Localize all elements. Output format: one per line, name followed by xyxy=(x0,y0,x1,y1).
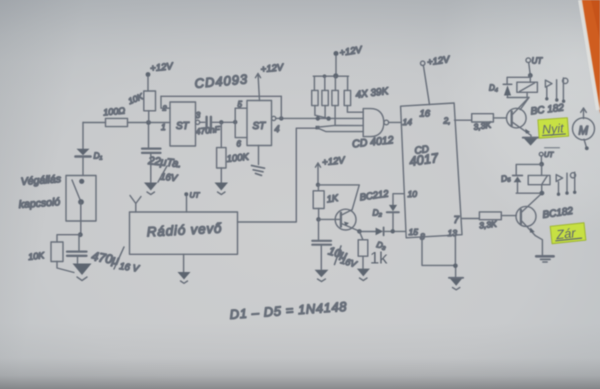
node base xyxy=(316,217,321,222)
IC CD4017 box xyxy=(401,103,462,238)
op IC ST1 (CD4093 gate A) xyxy=(170,102,196,146)
svg-text:BC182: BC182 xyxy=(542,206,574,221)
node relay1 top xyxy=(528,73,533,78)
wire to BC212 collector xyxy=(318,185,359,210)
wire +12V to 10K xyxy=(147,76,149,91)
svg-text:3: 3 xyxy=(196,110,201,120)
svg-text:10K: 10K xyxy=(28,250,46,262)
svg-text:D₄: D₄ xyxy=(489,84,498,93)
label UT (top right) xyxy=(526,58,531,63)
capacitor 22uTa xyxy=(142,125,161,182)
wire +12V arrow down xyxy=(315,163,320,185)
wire UT down to relay2 xyxy=(540,156,542,164)
node radio tap xyxy=(316,126,320,130)
svg-text:14: 14 xyxy=(403,117,413,127)
limit switch box xyxy=(66,176,96,235)
transistor BC212 xyxy=(335,209,359,231)
svg-text:+12V: +12V xyxy=(150,61,175,74)
wire emitter to 1k xyxy=(359,231,363,239)
resistor 39K d xyxy=(344,90,350,105)
relay contacts 1 xyxy=(545,78,568,103)
svg-text:1k: 1k xyxy=(370,250,388,268)
svg-text:5: 5 xyxy=(238,100,243,109)
svg-text:4017: 4017 xyxy=(408,150,439,169)
motor M xyxy=(573,108,595,150)
svg-text:UT: UT xyxy=(190,191,201,200)
wire pin10 to D2 xyxy=(393,194,404,205)
node D2-D3 xyxy=(391,229,395,233)
svg-text:2: 2 xyxy=(162,104,168,113)
node under pin13 xyxy=(453,264,458,269)
ground under 10u xyxy=(315,270,329,282)
wire pins 8,13 to ground xyxy=(422,235,456,278)
wire input4 from tap xyxy=(317,128,363,132)
ground under BC182 bottom xyxy=(536,256,553,262)
wire leads to NAND inputs xyxy=(315,106,329,119)
wire input3 from tap xyxy=(318,125,364,127)
ground under ST2 xyxy=(252,146,265,176)
ground under radio xyxy=(178,272,191,283)
svg-text:15: 15 xyxy=(409,227,419,237)
diode D5 xyxy=(500,172,522,184)
svg-text:10: 10 xyxy=(408,189,418,199)
wire pin4 to NAND xyxy=(276,117,363,119)
svg-text:3,3K: 3,3K xyxy=(473,120,492,132)
wire radio ground xyxy=(183,254,185,271)
diode D1 xyxy=(76,149,103,161)
diode D3 xyxy=(360,227,406,251)
svg-text:3,3K: 3,3K xyxy=(479,219,498,231)
wire relay1 rails xyxy=(507,75,530,97)
node +12V xyxy=(146,72,151,77)
relay contacts 2 xyxy=(556,172,576,196)
wire 1K to base node xyxy=(317,185,319,220)
svg-text:16V: 16V xyxy=(339,255,358,269)
svg-text:4X 39K: 4X 39K xyxy=(355,86,390,101)
wire pin3 to cap xyxy=(200,121,205,123)
svg-text:16 V: 16 V xyxy=(119,261,142,275)
capacitor 10u xyxy=(312,221,331,269)
svg-text:1: 1 xyxy=(161,122,166,132)
svg-text:kapcsoló: kapcsoló xyxy=(18,196,60,211)
node on rail xyxy=(323,74,327,78)
ground under 470u xyxy=(73,264,92,281)
resistor 39K b xyxy=(322,90,328,105)
wire pin7 to 3.3K bottom xyxy=(462,218,479,220)
wire pin2 to 3.3K xyxy=(455,119,472,121)
capacitor 470nF xyxy=(207,117,211,128)
wire: D1 to switch xyxy=(82,158,84,176)
svg-text:Végállás: Végállás xyxy=(20,173,62,188)
svg-text:+12V: +12V xyxy=(322,155,347,168)
gate output bubble xyxy=(384,120,389,125)
svg-text:16: 16 xyxy=(420,109,431,120)
resistor 100K xyxy=(217,148,226,168)
antenna xyxy=(130,196,141,213)
wire +12V to pin16 xyxy=(423,66,429,105)
diode D2 xyxy=(373,205,399,231)
svg-text:2,: 2, xyxy=(443,116,451,126)
wire +12V to rail xyxy=(335,56,337,77)
wire to 10K bottom resistor xyxy=(57,235,80,242)
svg-text:+12V: +12V xyxy=(426,54,451,68)
wire radio output to NAND xyxy=(238,128,318,222)
svg-text:16V: 16V xyxy=(160,172,180,185)
wire feedback vertical xyxy=(280,96,282,118)
wire 10K to node xyxy=(148,111,150,123)
svg-text:100Ω: 100Ω xyxy=(103,106,126,118)
svg-text:D₁: D₁ xyxy=(94,151,103,161)
svg-text:Rádió vevő: Rádió vevő xyxy=(146,221,222,240)
resistor 3.3K (top) xyxy=(472,114,494,122)
svg-text:BC 182: BC 182 xyxy=(530,102,565,117)
svg-text:D₅: D₅ xyxy=(500,172,512,184)
wire relay2 rails xyxy=(516,164,542,193)
wire feedback rail xyxy=(161,95,281,97)
wire node to 100K to ground xyxy=(220,122,222,182)
resistor 10K (bottom-left) xyxy=(51,242,63,262)
svg-text:ST: ST xyxy=(253,121,267,132)
resistor 39K c xyxy=(332,90,338,105)
wire UT to radio box xyxy=(186,196,188,212)
highlight Nyit xyxy=(538,118,569,138)
ground under BC182 top xyxy=(523,138,539,146)
svg-text:7: 7 xyxy=(454,215,460,226)
resistor 1k xyxy=(358,240,368,256)
resistor 10K (pull-up) xyxy=(144,91,156,111)
wire cap to ST2 xyxy=(212,121,235,123)
transistor BC182 (top) xyxy=(507,98,532,138)
transistor BC182 (bottom) xyxy=(516,193,542,255)
pin 4 bubble xyxy=(272,116,276,120)
node relay2 top xyxy=(539,162,544,167)
node top of 1K xyxy=(316,183,320,187)
svg-text:470nF: 470nF xyxy=(195,124,221,137)
wire 3.3K to base xyxy=(493,117,506,119)
svg-text:CD4093: CD4093 xyxy=(194,71,249,91)
radio receiver box xyxy=(130,212,238,254)
wire 3.3K to base xyxy=(501,215,516,217)
svg-text:10K: 10K xyxy=(127,91,145,106)
node junction on main line xyxy=(146,120,151,125)
relay coil 2 xyxy=(528,175,550,184)
node feedback xyxy=(279,116,283,120)
ground under CD4017 xyxy=(449,278,463,290)
highlight Zar xyxy=(550,223,586,244)
svg-text:+12V: +12V xyxy=(339,44,365,59)
ground under 100K xyxy=(215,183,229,195)
svg-text:BC212: BC212 xyxy=(359,188,390,203)
wire relay1 to collector xyxy=(520,98,529,110)
node input2 a xyxy=(316,116,320,120)
svg-text:ST: ST xyxy=(176,121,190,132)
wire gate output to pin14 xyxy=(389,121,402,123)
wire stubs to resistors xyxy=(314,76,347,90)
wire: drop to D1 xyxy=(82,123,84,149)
resistor 1K xyxy=(313,191,324,209)
label +12V pin16 xyxy=(421,61,425,65)
node at tie xyxy=(233,120,237,124)
ground under 1k xyxy=(357,269,370,281)
svg-text:6: 6 xyxy=(237,140,242,149)
svg-text:100K: 100K xyxy=(226,152,250,165)
svg-text:+12V: +12V xyxy=(260,62,285,75)
label UT (lower right) xyxy=(539,152,543,156)
node relay2 bottom xyxy=(540,191,545,196)
pin 3 bubble xyxy=(196,120,200,124)
svg-text:4: 4 xyxy=(275,124,280,134)
pin 2 stub and label xyxy=(161,96,170,108)
svg-text:1K: 1K xyxy=(326,193,340,206)
capacitor 470u xyxy=(67,235,87,263)
svg-text:M: M xyxy=(579,126,589,138)
node after cap xyxy=(219,120,223,124)
wire: main input line left xyxy=(83,122,170,124)
wire pins 5-6 tie xyxy=(235,108,247,137)
node on rail 2 xyxy=(333,73,338,78)
svg-text:D1 – D5 = 1N4148: D1 – D5 = 1N4148 xyxy=(229,299,348,322)
svg-text:CD 4012: CD 4012 xyxy=(352,134,395,150)
wire +12V arrow to ST2 xyxy=(255,74,260,101)
node emitter xyxy=(357,229,362,234)
relay coil 1 xyxy=(517,82,538,92)
svg-text:22μTa.: 22μTa. xyxy=(147,155,182,171)
node +12V xyxy=(334,51,339,56)
node input2 b xyxy=(326,116,330,120)
svg-text:UT: UT xyxy=(544,152,554,159)
gate CD4012 NAND xyxy=(363,109,384,137)
node under switch xyxy=(78,232,83,237)
wire base xyxy=(319,218,341,220)
node UT above radio xyxy=(184,192,188,196)
wire 1k to ground xyxy=(362,256,364,268)
diode D4 xyxy=(489,84,512,96)
wire UT down xyxy=(529,62,531,75)
resistor 100ohm xyxy=(106,118,128,126)
wire 10K to ground xyxy=(57,262,74,273)
resistor 3.3K (bottom) xyxy=(479,212,501,220)
wire 39K top rail xyxy=(313,75,348,77)
orange desk corner top-right xyxy=(580,0,600,114)
op IC ST2 (CD4093 gate B) xyxy=(247,101,272,146)
resistor 39K a xyxy=(312,90,318,105)
ground under 22uTa xyxy=(144,183,158,195)
svg-text:UT: UT xyxy=(532,57,544,66)
svg-text:D₂: D₂ xyxy=(373,208,383,218)
